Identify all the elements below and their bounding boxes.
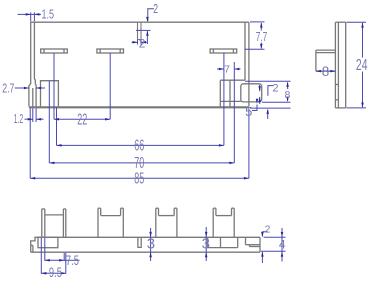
- slot 3: [210, 49, 237, 53]
- tab dim arrow down: [258, 86, 261, 91]
- right end edge: [259, 237, 261, 252]
- right rib b: [229, 80, 231, 106]
- dim 66 arrow left: [57, 144, 62, 147]
- svg-text:3: 3: [202, 235, 210, 252]
- dim 1.5 ext right: [33, 12, 35, 21]
- dim 3a arrow up: [149, 252, 152, 257]
- tab dim arrow line lower: [259, 97, 261, 104]
- dim 4 line: [281, 228, 283, 262]
- ch1 right wall outer: [65, 209, 67, 237]
- right rib a: [219, 80, 221, 106]
- bottom bar top and left step: [31, 237, 260, 252]
- dim 7.5 line: [45, 259, 64, 261]
- side view bottom edge: [335, 107, 345, 109]
- ext 1.2 left: [32, 108, 34, 122]
- dim 3b arrow up: [205, 252, 208, 257]
- dim 2 mate line: [261, 252, 263, 263]
- dim 3a line: [150, 228, 152, 261]
- slot3 extension stem: [223, 53, 225, 145]
- channel 3: [156, 208, 177, 237]
- dim 1.5 line: [18, 13, 41, 15]
- ext 7.5 right: [63, 253, 65, 261]
- svg-text:66: 66: [134, 138, 144, 155]
- dim 2 bottom leader: [262, 232, 267, 237]
- ext 9.5 right: [65, 253, 67, 274]
- channel 2: [98, 208, 123, 237]
- dim 2 bottom arrow: [261, 232, 264, 237]
- slot2 extension stem: [109, 53, 111, 119]
- right end box bottom: [246, 244, 261, 246]
- side tab top outer: [316, 49, 336, 51]
- dim 2 width arrow right: [141, 41, 146, 44]
- dim 70 arrow left: [49, 162, 54, 165]
- channel 4: [213, 208, 234, 237]
- dim 70 line: [49, 162, 234, 164]
- dim 7 ext right: [233, 62, 235, 163]
- top notch bottom: [138, 39, 142, 41]
- ch1 left wall outer: [41, 209, 43, 237]
- dim 2 depth arrow: [146, 31, 149, 36]
- side view left face: [334, 22, 336, 108]
- dim 70 arrow right: [229, 162, 234, 165]
- right interior upper line: [220, 79, 245, 81]
- dim 7.7 top ext: [250, 21, 265, 23]
- dim 2 depth line: [146, 31, 148, 44]
- side view tick lower: [335, 99, 338, 101]
- svg-text:2: 2: [272, 83, 278, 95]
- side view inner line: [337, 22, 339, 108]
- dim 24 line lower: [362, 72, 364, 108]
- dim 2 depth ext: [136, 29, 151, 31]
- ext 9.5 left: [40, 238, 42, 274]
- tab dim arrow line upper: [259, 85, 261, 92]
- dim 8 side line: [316, 70, 336, 72]
- dim 1.5 arrow left: [26, 13, 31, 16]
- dim 85 arrow right: [244, 177, 249, 180]
- right tab: [241, 84, 262, 102]
- dim 1.2 arrow left: [28, 118, 33, 121]
- dim 8 line lower: [287, 100, 289, 102]
- dim 1.2 line right: [36, 118, 43, 120]
- bottom right blue ext: [250, 107, 291, 109]
- dim 1.2 arrow right: [36, 118, 41, 121]
- dim 7.5 tail: [64, 259, 79, 261]
- ext 66 left: [56, 107, 58, 145]
- dim 24 arrow up: [361, 23, 364, 28]
- dim 5 mate arrow: [266, 109, 269, 114]
- svg-text:7: 7: [224, 64, 230, 76]
- dim 3b line: [205, 227, 207, 261]
- front view bottom edge: [29, 106, 249, 108]
- dim 2 width arrow left: [133, 41, 138, 44]
- right end box left: [245, 237, 247, 244]
- svg-text:22: 22: [77, 111, 87, 128]
- dim 2 top leader arrow: [146, 17, 149, 22]
- dim 2 top leader: [148, 9, 154, 21]
- dim 8 arrow up: [286, 82, 289, 87]
- dim 4 bottom ext: [261, 250, 286, 252]
- dim 24 line upper: [362, 23, 364, 58]
- dim 7 arrow left: [219, 68, 224, 71]
- dim 2.7 leader: [15, 87, 29, 89]
- dim 2.7 arrow right: [36, 87, 41, 90]
- side tab bottom edge: [316, 70, 336, 72]
- dim 7.5 arrow right: [59, 259, 64, 262]
- side view tick upper: [335, 84, 338, 86]
- ext 85 left: [29, 108, 31, 178]
- dim 8 line upper: [287, 82, 289, 89]
- dim 24 arrow down: [361, 103, 364, 108]
- dim 1.5 ext left: [30, 12, 32, 21]
- dim 2.7 arrow left: [24, 87, 29, 90]
- dim 8 arrow down: [286, 97, 289, 102]
- dim 7.7 bottom ext: [245, 48, 265, 50]
- left step notch vert: [32, 245, 34, 252]
- top notch right wall: [140, 22, 142, 39]
- dim 66 arrow right: [219, 144, 224, 147]
- dim 1.5 arrow right: [34, 13, 39, 16]
- dim 2 width line right: [141, 41, 147, 43]
- front view right inner wall: [244, 22, 246, 80]
- dim 5 leader: [252, 105, 257, 111]
- side view top edge: [335, 21, 345, 23]
- dim 3b arrow down: [205, 232, 208, 237]
- bottom bar bottom edge: [31, 251, 260, 253]
- dim 2.7 line right: [36, 87, 45, 89]
- box divider c: [237, 237, 239, 247]
- slot1 extension stem: [53, 53, 55, 119]
- svg-text:1.5: 1.5: [42, 6, 55, 21]
- dim 9.5 arrow left: [41, 272, 46, 275]
- mid notch: [138, 237, 141, 247]
- ch1 left cap: [42, 208, 45, 210]
- dim 22 line: [54, 118, 110, 120]
- ext 85 right: [248, 108, 250, 178]
- ch1 right cap: [63, 208, 65, 210]
- tab dim 2 leader: [268, 86, 273, 96]
- dim 8 side arrow left: [316, 70, 321, 73]
- dim 1.2 line left: [25, 118, 33, 120]
- svg-text:2: 2: [265, 224, 271, 236]
- dim 2 width line left: [132, 41, 138, 43]
- dim 5 mate line: [267, 110, 269, 119]
- svg-text:85: 85: [134, 171, 144, 188]
- tab dim arrow up: [258, 97, 261, 102]
- dim 7.7 arrow down: [260, 44, 263, 49]
- dim 7.7 line lower: [260, 43, 262, 49]
- side tab left edge: [315, 50, 317, 71]
- svg-text:5: 5: [245, 104, 252, 119]
- ch1 crossbar: [45, 214, 64, 216]
- front view right outer wall: [248, 22, 250, 106]
- svg-text:1.2: 1.2: [14, 111, 24, 126]
- svg-text:7.5: 7.5: [66, 252, 79, 268]
- svg-text:4: 4: [279, 238, 286, 252]
- dim 85 arrow left: [30, 177, 35, 180]
- slot 2: [97, 49, 124, 53]
- dim 7 arrow right: [234, 68, 239, 71]
- dim 2 width ext left: [137, 40, 139, 45]
- dim 4 arrow down: [281, 232, 284, 237]
- svg-text:2.7: 2.7: [2, 81, 14, 96]
- dim 5 arrow: [256, 99, 259, 104]
- dim 7.7 arrow up: [260, 23, 263, 28]
- dim 85 line: [30, 177, 249, 179]
- side tab top inner: [316, 52, 336, 54]
- left interior line: [32, 88, 34, 106]
- dim 7.5 arrow left: [45, 259, 50, 262]
- ch1 left wall inner: [44, 209, 46, 237]
- dim 22 arrow left: [54, 118, 59, 121]
- dim 7 line right: [234, 68, 240, 70]
- top notch left wall: [137, 22, 139, 39]
- dim 3a arrow down: [149, 232, 152, 237]
- box divider a: [207, 237, 209, 247]
- svg-text:24: 24: [356, 57, 368, 74]
- left step notch horiz: [31, 244, 33, 246]
- notch under ch1: [38, 237, 58, 247]
- intermediate line: [208, 247, 238, 249]
- front view left inner wall with jog: [34, 22, 36, 106]
- ch1 right wall inner: [62, 209, 64, 237]
- right end step vert: [248, 245, 250, 247]
- dim 2 mate arrow: [261, 252, 264, 257]
- dim 9.5 arrow right: [61, 272, 66, 275]
- left tower outline: [41, 81, 59, 107]
- svg-text:8: 8: [284, 89, 290, 101]
- dim 2 width ext right: [140, 40, 142, 45]
- dim 4 top ext: [264, 236, 286, 238]
- svg-text:7.7: 7.7: [256, 30, 268, 44]
- dim 7 line left: [217, 68, 224, 70]
- right interior lower line: [220, 100, 241, 102]
- front view top edge: [30, 21, 249, 23]
- ext 1.2 right: [35, 108, 37, 122]
- svg-text:3: 3: [147, 236, 155, 253]
- svg-text:8: 8: [322, 64, 330, 79]
- dim 4 arrow up: [281, 252, 284, 257]
- dim 8 top ext: [245, 80, 291, 82]
- slot 1: [41, 49, 68, 53]
- svg-text:2: 2: [139, 37, 146, 51]
- svg-text:2: 2: [153, 1, 158, 16]
- dim 7.7 line upper: [260, 23, 262, 31]
- dim 22 arrow right: [105, 118, 110, 121]
- svg-text:9.5: 9.5: [49, 264, 62, 280]
- dim 9.5 line: [41, 272, 66, 274]
- side view right face: [345, 22, 347, 108]
- dim 8 side arrow right: [330, 70, 335, 73]
- dim 24 bottom ext: [347, 107, 367, 109]
- ext 7.5 left: [44, 238, 46, 261]
- front view left outer wall: [29, 22, 31, 106]
- box divider b: [220, 237, 222, 247]
- ext 70 left: [48, 81, 50, 163]
- dim 66 line: [57, 144, 224, 146]
- dim 24 top ext: [347, 21, 367, 23]
- dim 8 bottom ext: [262, 101, 291, 103]
- right end step horiz: [249, 246, 260, 248]
